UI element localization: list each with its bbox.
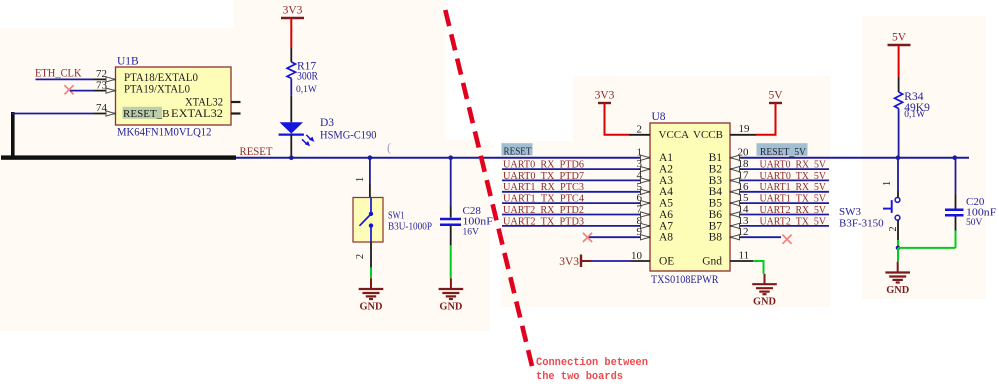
svg-text:GND: GND [360, 300, 383, 312]
wire UART2_RX_PTD2 [502, 214, 639, 216]
net label RESET (U8) highlighted [502, 143, 533, 155]
svg-text:GND: GND [753, 296, 776, 308]
svg-text:100nF: 100nF [966, 207, 996, 219]
net label RESET_5V highlighted [757, 143, 808, 156]
svg-text:11: 11 [739, 250, 750, 262]
resistor R17 [287, 60, 318, 95]
wire UART1_RX_5V [741, 191, 829, 193]
svg-text:U1B: U1B [117, 56, 139, 68]
svg-text:B1: B1 [709, 152, 723, 164]
power 3V3 (U8 VCCA) [598, 102, 611, 104]
ground GND (SW3) [897, 248, 899, 262]
svg-text:TXS0108EPWR: TXS0108EPWR [651, 274, 719, 286]
svg-text:1: 1 [355, 177, 366, 182]
junction SW3/C20 green [896, 246, 901, 251]
svg-text:RESET: RESET [504, 146, 532, 158]
svg-text:MK64FN1M0VLQ12: MK64FN1M0VLQ12 [117, 127, 212, 139]
ground GND (SW1) [370, 278, 372, 288]
svg-text:B3U-1000P: B3U-1000P [388, 222, 432, 233]
svg-text:B7: B7 [709, 220, 723, 232]
svg-text:100nF: 100nF [463, 215, 493, 227]
svg-text:3V3: 3V3 [283, 5, 303, 17]
wire pin 73 [70, 90, 94, 92]
svg-text:A4: A4 [659, 186, 673, 198]
svg-text:50V: 50V [966, 218, 983, 228]
svg-text:0,1W: 0,1W [296, 85, 317, 95]
svg-text:2: 2 [637, 123, 643, 135]
svg-text:B6: B6 [709, 209, 723, 221]
wire UART0_TX_PTD7 [502, 179, 639, 181]
junction C20 [953, 155, 958, 160]
chip U1B [94, 56, 241, 139]
wire R34 to line [898, 109, 900, 158]
svg-text:U8: U8 [652, 111, 666, 123]
svg-text:A3: A3 [659, 175, 673, 187]
svg-text:(: ( [387, 141, 391, 155]
junction D3 [289, 155, 294, 160]
power 5V (U8 VCCB) [769, 102, 782, 104]
svg-text:XTAL32: XTAL32 [185, 96, 223, 108]
wire thick bus horizontal RESET [1, 155, 236, 159]
power 5V (R34) [888, 44, 911, 46]
switch SW3 [839, 158, 900, 248]
no-ERC cross pin 73 [64, 85, 73, 94]
svg-text:Gnd: Gnd [702, 255, 722, 267]
svg-text:B3F-3150: B3F-3150 [839, 218, 884, 230]
wire RESET_5V horizontal [741, 157, 969, 159]
wire UART1_RX_PTC3 [502, 191, 639, 193]
board separator dashed line [445, 10, 532, 369]
svg-text:3V3: 3V3 [559, 256, 579, 268]
ground GND (U8) [764, 274, 766, 284]
svg-text:300R: 300R [297, 71, 318, 83]
power 3V3 (R17) [281, 17, 304, 19]
svg-text:Connection between: Connection between [536, 357, 648, 369]
svg-text:10: 10 [631, 250, 643, 262]
svg-text:A5: A5 [659, 198, 673, 210]
svg-text:19: 19 [739, 123, 751, 135]
svg-text:A2: A2 [659, 164, 673, 176]
svg-text:B3: B3 [709, 175, 723, 187]
wire green SW1 to GND [370, 268, 372, 279]
svg-text:5V: 5V [768, 90, 783, 102]
wire OE [591, 260, 631, 262]
svg-text:B8: B8 [709, 232, 723, 244]
svg-text:RESET_B: RESET_B [123, 108, 170, 120]
svg-text:A8: A8 [659, 232, 673, 244]
junction R34 [896, 155, 901, 160]
svg-text:PTA18/EXTAL0: PTA18/EXTAL0 [124, 72, 198, 84]
svg-text:1: 1 [882, 181, 893, 186]
no-ERC cross pin 12 [782, 235, 791, 244]
junction SW1 [368, 155, 373, 160]
wire thick bus vertical [11, 112, 15, 158]
svg-text:SW3: SW3 [839, 206, 862, 218]
wire UART2_TX_PTD3 [502, 225, 639, 227]
wire UART0_RX_PTD6 [502, 168, 639, 170]
svg-text:RESET_5V: RESET_5V [760, 146, 806, 158]
svg-text:VCCB: VCCB [693, 129, 723, 141]
svg-text:GND: GND [439, 300, 462, 312]
wire red 5V to pin19 [756, 103, 776, 135]
switch SW1 [353, 158, 432, 268]
wire R17 to D3 [290, 78, 292, 95]
wire RESET main horizontal [236, 157, 639, 159]
svg-text:A1: A1 [659, 152, 673, 164]
svg-text:0,1W: 0,1W [904, 110, 925, 120]
svg-text:HSMG-C190: HSMG-C190 [320, 130, 377, 142]
wire green pin11 to GND [753, 261, 764, 274]
svg-text:2: 2 [888, 226, 899, 231]
svg-text:B2: B2 [709, 164, 723, 176]
wire UART0_TX_5V [741, 179, 829, 181]
LED D3 [279, 117, 377, 146]
svg-text:PTA19/XTAL0: PTA19/XTAL0 [124, 84, 190, 96]
svg-text:72: 72 [96, 68, 107, 80]
svg-text:D3: D3 [320, 117, 334, 129]
no-ERC cross pin 9 [583, 233, 592, 242]
svg-text:B4: B4 [709, 186, 723, 198]
wire green C20 [955, 231, 957, 248]
svg-text:B5: B5 [709, 198, 723, 210]
capacitor C20 [945, 158, 996, 231]
wire red 3V3 to pin2 [605, 103, 630, 135]
svg-text:RESET: RESET [240, 146, 273, 158]
svg-text:OE: OE [659, 255, 674, 267]
svg-text:A6: A6 [659, 209, 673, 221]
svg-text:16V: 16V [463, 228, 480, 238]
svg-text:2: 2 [355, 254, 366, 259]
wire red 3V3 to R17 [290, 18, 292, 47]
wire pin 9 stub [587, 236, 639, 238]
resistor R34 [895, 91, 931, 120]
svg-text:A7: A7 [659, 220, 673, 232]
junction C28 [448, 155, 453, 160]
wire red 5V to R34 [898, 45, 900, 77]
wire D3 to RESET line [290, 135, 292, 158]
ground GND (C28) [450, 278, 452, 288]
wire pin 12 stub [741, 236, 781, 238]
svg-text:SW1: SW1 [388, 211, 405, 222]
wire UART2_TX_5V [741, 225, 829, 227]
power 3V3 (OE) [580, 255, 582, 268]
svg-text:GND: GND [886, 284, 909, 296]
wire green C28 to GND [450, 245, 452, 278]
wire UART0_RX_5V [741, 168, 829, 170]
wire ETH_CLK [36, 78, 95, 80]
svg-text:EXTAL32: EXTAL32 [171, 108, 223, 120]
svg-text:ETH_CLK: ETH_CLK [35, 68, 82, 80]
wire UART1_TX_PTC4 [502, 202, 639, 204]
svg-text:5V: 5V [892, 32, 907, 44]
svg-text:VCCA: VCCA [659, 129, 690, 141]
svg-text:the two boards: the two boards [536, 371, 623, 383]
op-amp U8 level shifter [629, 111, 756, 286]
wire green SW3-C20 [898, 247, 956, 249]
svg-text:3V3: 3V3 [595, 90, 615, 102]
wire UART1_TX_5V [741, 202, 829, 204]
wire UART2_RX_5V [741, 214, 829, 216]
capacitor C28 [440, 158, 493, 246]
wire pin 74 [12, 113, 94, 115]
